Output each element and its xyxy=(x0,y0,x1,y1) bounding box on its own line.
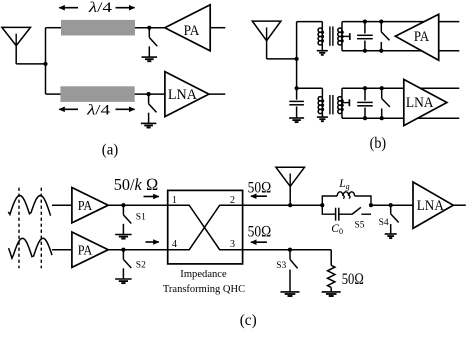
svg-text:50Ω: 50Ω xyxy=(248,179,272,196)
svg-text:S3: S3 xyxy=(276,261,286,271)
svg-text:2: 2 xyxy=(230,195,235,206)
svg-text:PA: PA xyxy=(78,242,93,257)
svg-text:50Ω: 50Ω xyxy=(342,271,364,288)
svg-text:S4: S4 xyxy=(379,218,389,228)
svg-text:50Ω: 50Ω xyxy=(248,223,272,240)
svg-text:4: 4 xyxy=(172,239,177,250)
svg-text:(b): (b) xyxy=(370,135,387,152)
svg-text:LNA: LNA xyxy=(417,198,445,214)
svg-text:λ/4: λ/4 xyxy=(88,0,113,16)
svg-text:50/k Ω: 50/k Ω xyxy=(114,175,159,194)
svg-text:Impedance: Impedance xyxy=(180,268,227,280)
svg-text:LNA: LNA xyxy=(168,87,198,103)
svg-text:3: 3 xyxy=(230,239,235,250)
svg-text:1: 1 xyxy=(172,195,177,206)
svg-text:S5: S5 xyxy=(355,221,365,231)
svg-text:Transforming QHC: Transforming QHC xyxy=(163,283,245,295)
svg-text:S1: S1 xyxy=(136,212,146,222)
svg-text:(a): (a) xyxy=(102,142,119,159)
svg-text:PA: PA xyxy=(414,29,430,45)
svg-text:LNA: LNA xyxy=(406,95,434,111)
svg-text:(c): (c) xyxy=(240,312,257,329)
svg-text:PA: PA xyxy=(184,23,200,39)
svg-text:PA: PA xyxy=(78,198,93,213)
svg-text:λ/4: λ/4 xyxy=(86,103,111,119)
svg-text:S2: S2 xyxy=(136,261,146,271)
